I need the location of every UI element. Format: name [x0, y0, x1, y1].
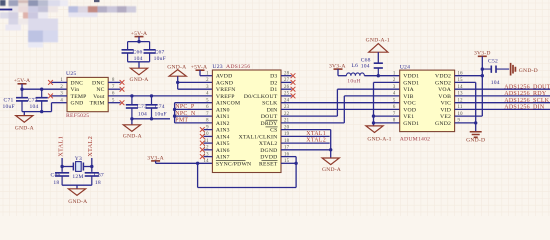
ground GND-A (under C73/C74) [131, 119, 133, 125]
svg-text:DRDY: DRDY [261, 121, 278, 127]
U25 pin1 stub [52, 81, 68, 83]
svg-text:5: 5 [206, 99, 209, 104]
junction [20, 88, 23, 91]
svg-text:TRIM: TRIM [90, 101, 105, 107]
wire 3V3-D vertical [481, 56, 483, 116]
U23 pin9 stub [204, 129, 213, 131]
wire XTAL1 vertical [61, 158, 63, 171]
svg-text:GND1: GND1 [403, 121, 419, 127]
svg-text:ADS1256_DOUT: ADS1256_DOUT [504, 84, 550, 90]
svg-text:VOB: VOB [438, 94, 451, 100]
svg-text:DNC: DNC [71, 80, 84, 86]
svg-text:AIN5: AIN5 [216, 141, 230, 147]
svg-text:6: 6 [393, 105, 396, 110]
wire vertical AINCOM-PMT [174, 103, 176, 123]
svg-text:10uF: 10uF [155, 112, 167, 118]
capacitor C68 [374, 63, 383, 75]
wire VIC in [455, 102, 550, 104]
svg-text:REF5025: REF5025 [66, 113, 89, 119]
svg-text:ADS1256_DIN: ADS1256_DIN [504, 105, 545, 111]
wire VREFN [178, 88, 213, 90]
svg-text:3: 3 [393, 85, 396, 90]
wire gnd vertical [373, 82, 375, 126]
wire DOUT [281, 115, 337, 117]
power ground GND-D (right of C52, bar style) [511, 63, 516, 76]
svg-text:ADS1256: ADS1256 [226, 64, 250, 70]
svg-text:GND-D: GND-D [466, 138, 485, 144]
svg-text:C52: C52 [488, 58, 498, 64]
wire to L6 [338, 75, 346, 77]
no-connect X pin10 [200, 134, 205, 139]
junction [150, 117, 153, 120]
svg-text:Y3: Y3 [75, 156, 82, 162]
capacitor C74 [146, 96, 158, 119]
no-connect X pin5 [120, 100, 125, 105]
svg-text:DVDD: DVDD [260, 155, 277, 161]
wire DVDD/RESET vertical [295, 157, 297, 188]
svg-text:1: 1 [393, 72, 396, 77]
svg-text:C86: C86 [51, 172, 61, 178]
junction C73 [130, 94, 133, 97]
wire gnd vertical [475, 82, 477, 131]
svg-text:XTAL2: XTAL2 [259, 141, 278, 147]
svg-text:AIN4: AIN4 [216, 134, 230, 140]
svg-text:C66: C66 [133, 50, 143, 56]
svg-text:AIN2: AIN2 [216, 121, 230, 127]
junction [329, 148, 332, 151]
wire GND2 pin9 [455, 122, 476, 124]
svg-text:4: 4 [206, 92, 209, 97]
U25 pin5 stub [108, 102, 120, 104]
wire AIN2 / PMT [175, 122, 213, 124]
inductor L6 [346, 73, 364, 76]
stray wire stub at left edge [0, 9, 12, 11]
svg-text:AIN0: AIN0 [216, 107, 230, 113]
wire CS vertical [330, 130, 332, 158]
svg-text:7: 7 [206, 112, 209, 117]
U23 pin25 stub [281, 95, 292, 97]
wire RESET [281, 162, 296, 164]
junction Y3 right [90, 165, 93, 168]
wire AIN1 [175, 115, 213, 117]
junction [372, 114, 375, 117]
U25 pin3 stub [52, 95, 68, 97]
svg-text:12M: 12M [72, 174, 83, 180]
wire XTAL2 vertical [91, 158, 93, 171]
ground GND-A (CS/DGND) [322, 158, 339, 165]
no-connect X pin26 [291, 87, 296, 92]
no-connect X pin1 [48, 80, 53, 85]
junction C68 [377, 74, 380, 77]
svg-text:XTAL1/CLKIN: XTAL1/CLKIN [239, 134, 278, 140]
svg-text:GND2: GND2 [435, 80, 451, 86]
svg-text:D0/CLKOUT: D0/CLKOUT [244, 94, 278, 100]
svg-text:D2: D2 [270, 80, 277, 86]
capacitor C67 [144, 42, 156, 62]
no-connect X pin3 [48, 94, 53, 99]
U23 pin27 stub [281, 81, 292, 83]
svg-text:ADS1256_RDY: ADS1256_RDY [504, 91, 547, 97]
svg-text:VREFN: VREFN [216, 87, 236, 93]
svg-text:ADUM1402: ADUM1402 [400, 136, 431, 142]
svg-text:VE1: VE1 [403, 114, 414, 120]
svg-text:GND2: GND2 [435, 121, 451, 127]
svg-text:AIN3: AIN3 [216, 128, 230, 134]
svg-text:U24: U24 [400, 64, 410, 70]
svg-text:VIC: VIC [441, 101, 451, 107]
wire wrap bottom [198, 187, 297, 189]
no-connect X pin11 [200, 141, 205, 146]
wire VID in [455, 108, 550, 110]
ground GND-A (crystal) [76, 185, 78, 189]
svg-text:10uF: 10uF [154, 56, 166, 62]
svg-text:Vin: Vin [71, 87, 80, 93]
svg-text:VOA: VOA [438, 87, 452, 93]
svg-text:AVDD: AVDD [216, 74, 233, 80]
wire Vout to VREFP [108, 95, 212, 97]
ground GND-A (left) [23, 112, 25, 116]
junction VDD2 [481, 74, 484, 77]
svg-text:8: 8 [206, 119, 209, 124]
U23 pin28 stub [281, 75, 292, 77]
U23 pin13 stub [204, 156, 213, 158]
svg-text:D3: D3 [270, 74, 277, 80]
svg-text:GND: GND [71, 101, 84, 107]
no-connect X pin7 [120, 87, 125, 92]
wire VDD2 [455, 75, 483, 77]
U23 pin26 stub [281, 88, 292, 90]
no-connect X pin8 [120, 80, 125, 85]
svg-text:U25: U25 [66, 71, 76, 77]
IC U24 ADUM1402 body [400, 70, 455, 132]
svg-text:VE2: VE2 [440, 114, 451, 120]
svg-text:L6: L6 [352, 63, 359, 69]
junction [196, 162, 199, 165]
junction [130, 117, 133, 120]
op-amp/vref U25 body [67, 77, 108, 111]
svg-text:CS: CS [270, 128, 277, 134]
no-connect X pin28 [291, 73, 296, 78]
no-connect X pin13 [200, 154, 205, 159]
svg-text:XTAL2: XTAL2 [306, 138, 326, 144]
wire U25 pin4 [51, 103, 53, 112]
junction C74 [150, 94, 153, 97]
svg-text:NC: NC [96, 87, 104, 93]
svg-text:VIB: VIB [403, 94, 413, 100]
svg-text:VID: VID [440, 107, 451, 113]
wire AGND [178, 81, 213, 83]
wire DRDY [281, 122, 344, 124]
earth ground GND-D (below U24) [470, 132, 482, 137]
svg-text:C68: C68 [361, 57, 371, 63]
junction [173, 114, 176, 117]
svg-text:GND-A: GND-A [129, 77, 148, 83]
wire SYNC/PDWN [156, 162, 213, 164]
wire CS [281, 129, 331, 131]
wire DRDY vertical [343, 96, 345, 123]
svg-text:104: 104 [30, 104, 39, 110]
svg-text:4: 4 [60, 99, 63, 104]
junction C52 [481, 67, 484, 70]
wire DGND [281, 149, 331, 151]
svg-text:10uH: 10uH [347, 79, 360, 85]
U23 pin10 stub [204, 135, 213, 137]
crystal Y3 [62, 166, 73, 168]
junction [474, 121, 477, 124]
svg-text:6: 6 [206, 105, 209, 110]
svg-text:GND-D: GND-D [519, 68, 538, 74]
wire top rail [128, 41, 150, 43]
capacitor C52 [482, 66, 509, 73]
svg-text:104: 104 [138, 112, 147, 118]
svg-text:Vout: Vout [93, 94, 105, 100]
wire DVDD [281, 156, 296, 158]
wire DIN to VOD [281, 108, 400, 110]
U25 pin8 stub [108, 81, 120, 83]
svg-text:8: 8 [393, 119, 396, 124]
svg-text:C87: C87 [94, 172, 104, 178]
wire DOUT vertical [336, 89, 338, 116]
capacitor C87 [85, 171, 99, 185]
svg-text:DOUT: DOUT [261, 114, 278, 120]
svg-text:2: 2 [393, 78, 396, 83]
ground GND-A (under C66/C67) [138, 62, 140, 68]
svg-text:VOD: VOD [403, 107, 416, 113]
junction [176, 81, 179, 84]
svg-text:SYNC/PDWN: SYNC/PDWN [216, 161, 251, 167]
wire DOUT to VIA [337, 88, 399, 90]
wire AIN0 [175, 108, 213, 110]
svg-text:AINCOM: AINCOM [216, 101, 240, 107]
svg-text:ADS1256_SCLK: ADS1256_SCLK [504, 98, 549, 104]
svg-text:104: 104 [491, 80, 500, 86]
svg-text:XTAL1: XTAL1 [57, 136, 64, 157]
svg-text:AGND: AGND [216, 80, 233, 86]
junction [294, 162, 297, 165]
svg-text:VREFP: VREFP [216, 94, 235, 100]
wire gnd rail crystal [62, 184, 92, 186]
wire GND1 pin8 [374, 122, 400, 124]
junction [173, 108, 176, 111]
wire to VDD1 [364, 75, 399, 77]
capacitor C71 [16, 89, 28, 111]
svg-text:2: 2 [206, 78, 209, 83]
wire GND2 pin15 [455, 81, 476, 83]
wire gnd rail under C73/C74 [132, 118, 170, 120]
stray mark top edge [94, 0, 100, 2]
wire gnd rail [22, 111, 52, 113]
svg-text:GND-A-1: GND-A-1 [367, 137, 391, 143]
junction [372, 121, 375, 124]
svg-text:VDD2: VDD2 [435, 74, 451, 80]
svg-text:VOC: VOC [403, 101, 416, 107]
svg-text:NPC_P: NPC_P [175, 104, 195, 110]
no-connect X pin12 [200, 147, 205, 152]
wire VE2 [455, 115, 483, 117]
svg-text:XTAL2: XTAL2 [87, 136, 94, 157]
wire VOA out [455, 88, 550, 90]
svg-text:18: 18 [53, 180, 59, 186]
svg-text:RESET: RESET [259, 161, 278, 167]
svg-text:14: 14 [204, 159, 210, 164]
svg-text:C72: C72 [28, 98, 38, 104]
svg-text:C71: C71 [4, 98, 14, 104]
IC U23 ADS1256 body [212, 70, 281, 173]
svg-text:DNC: DNC [92, 80, 105, 86]
no-connect X pin27 [291, 80, 296, 85]
capacitor C86 [55, 171, 69, 185]
svg-text:4: 4 [393, 92, 396, 97]
svg-text:VDD1: VDD1 [403, 74, 419, 80]
wire AVDD [200, 75, 212, 77]
svg-text:U23: U23 [212, 64, 222, 70]
no-connect X pin9 [200, 127, 205, 132]
svg-text:NPC_N: NPC_N [175, 111, 196, 117]
svg-text:104: 104 [134, 56, 143, 62]
junction [40, 88, 43, 91]
junction Y3 left [60, 165, 63, 168]
svg-text:GND-A: GND-A [68, 199, 87, 205]
svg-text:AIN1: AIN1 [216, 114, 230, 120]
svg-text:GND-A: GND-A [322, 167, 341, 173]
junction [137, 40, 140, 43]
svg-text:DGND: DGND [260, 148, 277, 154]
svg-text:GND-A-1: GND-A-1 [366, 37, 390, 43]
svg-text:2: 2 [60, 85, 63, 90]
svg-text:10uF: 10uF [3, 104, 15, 110]
svg-text:D1: D1 [270, 87, 277, 93]
svg-text:AIN7: AIN7 [216, 155, 230, 161]
wire wrap up to SYNC [197, 163, 199, 187]
capacitor C72 [36, 89, 48, 111]
wire GND1 pin2 [374, 81, 400, 83]
wire VE1 pin7 [374, 115, 400, 117]
svg-text:GND-A: GND-A [15, 125, 34, 131]
svg-text:GND-A: GND-A [123, 133, 142, 139]
wire VOB out [455, 95, 550, 97]
svg-text:SCLK: SCLK [262, 101, 278, 107]
svg-text:C74: C74 [155, 104, 165, 110]
svg-text:DIN: DIN [267, 107, 278, 113]
wire XTAL2 [281, 142, 330, 144]
capacitor C66 [122, 42, 134, 62]
svg-text:PMT: PMT [175, 118, 188, 124]
svg-text:AIN6: AIN6 [216, 148, 230, 154]
junction [40, 110, 43, 113]
wire XTAL1/CLKIN [281, 135, 330, 137]
wire AINCOM [175, 102, 213, 104]
U25 pin7 stub [108, 88, 120, 90]
svg-text:XTAL1: XTAL1 [306, 131, 326, 137]
wire DRDY to VIB [344, 95, 399, 97]
svg-text:GND1: GND1 [403, 80, 419, 86]
svg-text:7: 7 [393, 112, 396, 117]
svg-text:3: 3 [206, 85, 209, 90]
no-connect X pin25 [291, 94, 296, 99]
svg-text:104: 104 [361, 63, 370, 69]
svg-text:18: 18 [95, 180, 101, 186]
svg-text:1: 1 [206, 72, 209, 77]
ground GND-A-1 (below U24 left) [366, 126, 383, 133]
svg-text:GND-A: GND-A [167, 64, 186, 70]
svg-text:C67: C67 [155, 50, 165, 56]
svg-text:VIA: VIA [403, 87, 414, 93]
wire Vin rail [22, 88, 67, 90]
U23 pin11 stub [204, 142, 213, 144]
capacitor C73 [126, 96, 138, 119]
U23 pin12 stub [204, 149, 213, 151]
wire SCLK to VOC [281, 102, 400, 104]
wire bottom rail [128, 61, 150, 63]
svg-text:5: 5 [393, 99, 396, 104]
svg-text:TEMP: TEMP [71, 94, 87, 100]
